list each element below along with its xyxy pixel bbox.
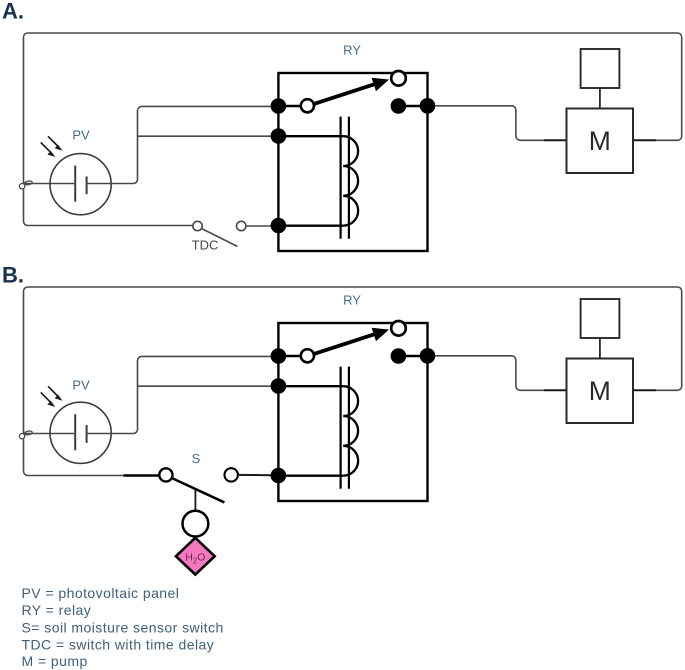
wire motor left lead (circuit A) bbox=[544, 139, 567, 141]
node: relay coil top dot (circuit B) bbox=[271, 378, 287, 394]
wire dot to common contact (circuit B) bbox=[278, 355, 301, 357]
label M (circuit B) bbox=[589, 376, 611, 406]
svg-text:A.: A. bbox=[2, 0, 24, 24]
svg-text:TDC: TDC bbox=[192, 238, 219, 253]
pump outlet square (circuit B) bbox=[581, 299, 620, 338]
svg-text:RY: RY bbox=[343, 43, 361, 58]
relay coil core lines (circuit A) bbox=[341, 117, 349, 239]
label PV (circuit A) bbox=[72, 127, 90, 142]
relay coil windings (circuit B) bbox=[343, 386, 358, 475]
wire motor right lead (circuit A) bbox=[633, 139, 656, 141]
wire lower-left branch A (PV left terminal down to bottom rail toward TDC) bbox=[24, 189, 193, 225]
svg-text:PV = photovoltaic panel: PV = photovoltaic panel bbox=[22, 585, 180, 601]
switch with time delay TDC: blade bbox=[202, 229, 238, 247]
wire relay output to motor M (circuit A) bbox=[435, 106, 544, 141]
wire outer loop A (M right terminal, up, across top, down left side to PV left terminal) bbox=[24, 33, 682, 184]
svg-text:M = pump: M = pump bbox=[22, 653, 88, 669]
label RY (circuit B) bbox=[343, 293, 361, 308]
switch with time delay TDC: left contact circle bbox=[193, 221, 202, 230]
node: relay output dot left (circuit A) bbox=[391, 98, 407, 114]
svg-text:PV: PV bbox=[72, 377, 90, 392]
wire output dots link (circuit A) bbox=[398, 105, 427, 107]
sun ray arrow 2 (circuit B) bbox=[41, 393, 56, 408]
pump outlet square (circuit A) bbox=[581, 49, 620, 88]
soil moisture sensor switch S: thick left lead bbox=[124, 474, 160, 477]
wire S switch to relay coil bottom (circuit B) bbox=[238, 474, 272, 476]
sun ray arrow 2 (circuit A) bbox=[41, 143, 56, 158]
node: relay coil bottom dot (circuit B) bbox=[271, 468, 287, 484]
relay RY box (circuit A) bbox=[278, 73, 427, 251]
relay RY box (circuit B) bbox=[278, 323, 427, 501]
wire motor top connector (circuit A) bbox=[599, 88, 601, 109]
wire output dots link (circuit B) bbox=[398, 355, 427, 357]
svg-text:RY: RY bbox=[343, 293, 361, 308]
svg-text:M: M bbox=[589, 126, 611, 156]
relay NO contact circle (circuit A) bbox=[391, 71, 406, 86]
relay NO contact circle (circuit B) bbox=[391, 321, 406, 336]
photovoltaic panel PV (circuit A) bbox=[50, 154, 111, 215]
photovoltaic panel PV (circuit B) bbox=[50, 402, 111, 463]
label A. bbox=[2, 0, 24, 24]
sun ray arrow 1 (circuit B) bbox=[48, 386, 63, 401]
wire TDC to relay coil bottom (circuit A) bbox=[246, 225, 272, 227]
svg-text:PV: PV bbox=[72, 127, 90, 142]
node: relay common feed dot (circuit A) bbox=[271, 98, 287, 114]
wire PV right terminal up and across to relay contact row (circuit B) bbox=[87, 356, 272, 433]
sensor bulb circle bbox=[183, 511, 209, 537]
wire PV left lead B bbox=[24, 433, 75, 435]
wire motor top connector (circuit B) bbox=[599, 338, 601, 359]
legend line TDC bbox=[22, 637, 215, 653]
H2O sensor diamond bbox=[176, 538, 215, 575]
wire coil bottom lead (circuit A) bbox=[278, 225, 343, 227]
soil moisture sensor switch S: left contact circle bbox=[159, 468, 172, 481]
wire motor right lead (circuit B) bbox=[633, 389, 656, 391]
relay coil core lines (circuit B) bbox=[341, 367, 349, 489]
svg-text:S: S bbox=[192, 451, 201, 466]
wire PV left lead A bbox=[24, 183, 75, 185]
switch with time delay TDC: right contact circle bbox=[237, 221, 246, 230]
pump motor M box (circuit A) bbox=[567, 109, 634, 174]
svg-text:M: M bbox=[589, 376, 611, 406]
wire coil top lead (circuit A) bbox=[278, 135, 343, 137]
node: relay coil top dot (circuit A) bbox=[271, 128, 287, 144]
label TDC bbox=[192, 238, 219, 253]
wire relay output to motor M (circuit B) bbox=[435, 356, 544, 391]
node: relay coil bottom dot (circuit A) bbox=[271, 218, 287, 234]
node: relay output dot left (circuit B) bbox=[391, 348, 407, 364]
node: relay output dot on box edge (circuit A) bbox=[420, 98, 436, 114]
label B. bbox=[2, 263, 24, 288]
pump motor M box (circuit B) bbox=[567, 359, 634, 424]
node: relay common feed dot (circuit B) bbox=[271, 348, 287, 364]
label S bbox=[192, 451, 201, 466]
label M (circuit A) bbox=[589, 126, 611, 156]
svg-text:RY = relay: RY = relay bbox=[22, 602, 92, 618]
label PV (circuit B) bbox=[72, 377, 90, 392]
soil moisture sensor switch S: right contact circle bbox=[225, 468, 238, 481]
node: relay output dot on box edge (circuit B) bbox=[420, 348, 436, 364]
label H2O bbox=[185, 552, 205, 566]
wire branch to relay coil top (circuit B) bbox=[138, 385, 273, 387]
wire lower-left branch B (PV left terminal down to bottom rail toward S switch) bbox=[24, 439, 124, 475]
relay armature arrow (circuit A) bbox=[314, 78, 389, 104]
wire PV right terminal up and across to relay contact row (circuit A) bbox=[87, 106, 272, 183]
relay coil windings (circuit A) bbox=[343, 136, 358, 226]
relay common movable contact circle (circuit B) bbox=[301, 349, 314, 362]
wire branch to relay coil top (circuit A) bbox=[138, 135, 273, 137]
legend line M bbox=[22, 653, 88, 669]
svg-text:B.: B. bbox=[2, 263, 24, 288]
relay common movable contact circle (circuit A) bbox=[301, 99, 314, 112]
wire dot to common contact (circuit A) bbox=[278, 105, 301, 107]
sun ray arrow 1 (circuit A) bbox=[48, 136, 63, 151]
soil moisture sensor switch S: blade bbox=[172, 478, 225, 502]
legend line PV bbox=[22, 585, 180, 601]
sensor stem wire bbox=[194, 490, 196, 511]
wire outer loop B (M right terminal, up, across top, down left side to PV left terminal) bbox=[24, 287, 682, 434]
svg-text:TDC = switch with time delay: TDC = switch with time delay bbox=[22, 637, 215, 653]
wire coil top lead (circuit B) bbox=[278, 385, 343, 387]
node A PV left junction (small loop) bbox=[19, 180, 32, 189]
relay armature arrow (circuit B) bbox=[314, 328, 389, 354]
label RY (circuit A) bbox=[343, 43, 361, 58]
legend line S bbox=[22, 619, 224, 635]
svg-text:S= soil moisture sensor switch: S= soil moisture sensor switch bbox=[22, 619, 224, 635]
wire motor left lead (circuit B) bbox=[544, 389, 567, 391]
wire coil bottom lead (circuit B) bbox=[278, 475, 343, 477]
legend line RY bbox=[22, 602, 92, 618]
node B PV left junction (small loop) bbox=[19, 430, 32, 439]
